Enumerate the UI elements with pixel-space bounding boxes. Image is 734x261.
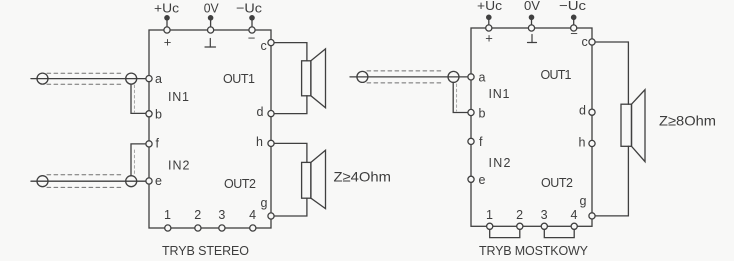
pin e (left): [146, 178, 152, 184]
svg-text:b: b: [155, 108, 162, 122]
svg-text:h: h: [256, 135, 263, 149]
svg-text:IN2: IN2: [168, 159, 190, 173]
wire IN1 shield to pin b (left): [131, 84, 146, 113]
svg-text:4: 4: [249, 208, 256, 222]
connector socket J2 (left IN2): [126, 176, 137, 187]
pin a (right): [468, 74, 474, 80]
pin b (right): [468, 109, 474, 115]
svg-text:3: 3: [541, 208, 548, 222]
wire IN2 shield to pin f (left): [131, 144, 146, 176]
svg-text:OUT2: OUT2: [224, 177, 256, 191]
svg-text:+: +: [164, 35, 172, 50]
pin f (left): [146, 141, 152, 147]
pin g (right): [589, 213, 595, 219]
svg-text:TRYB MOSTKOWY: TRYB MOSTKOWY: [479, 244, 589, 258]
svg-text:h: h: [579, 136, 586, 150]
pin c (left): [268, 40, 274, 46]
cable IN2 screen dashed outline (left): [47, 175, 121, 188]
svg-text:IN2: IN2: [489, 156, 511, 170]
connector socket J3 (right IN): [448, 71, 459, 82]
svg-text:d: d: [579, 104, 586, 118]
wire pin d to speaker LS1 (left): [274, 96, 307, 114]
pin d (right): [589, 109, 595, 115]
supply terminal +Uc (left): [164, 15, 170, 33]
svg-text:3: 3: [218, 208, 225, 222]
pin h (right): [589, 140, 595, 146]
svg-text:+: +: [485, 31, 493, 46]
svg-text:g: g: [261, 196, 268, 210]
pin 4 (right): [571, 223, 577, 229]
svg-text:IN1: IN1: [489, 87, 510, 101]
svg-text:OUT1: OUT1: [541, 68, 572, 82]
cable IN1 screen dashed outline (left): [47, 73, 121, 84]
connector plug P2 (left IN2): [37, 176, 48, 187]
svg-text:d: d: [257, 105, 264, 119]
svg-text:Z≥8Ohm: Z≥8Ohm: [659, 113, 716, 129]
amplifier box U2: [471, 28, 592, 226]
supply terminal -Uc (right): [571, 14, 577, 31]
svg-text:g: g: [580, 194, 587, 208]
supply terminal +Uc (right): [486, 14, 492, 31]
svg-text:2: 2: [516, 208, 523, 222]
svg-text:f: f: [479, 135, 483, 149]
svg-text:1: 1: [164, 208, 171, 222]
supply terminal 0V (left): [208, 15, 214, 33]
pin marking ⊥ (right): [528, 35, 537, 43]
svg-text:c: c: [261, 39, 267, 53]
pin 2 (right): [517, 223, 523, 229]
pin 2 (left): [195, 225, 201, 231]
wire IN centre conductor to pin a (right): [350, 76, 468, 78]
pin g (left): [268, 213, 274, 219]
jumper wire pins 3-4 (right): [544, 229, 574, 237]
svg-text:e: e: [479, 173, 486, 187]
pin e (right): [468, 176, 474, 182]
svg-text:1: 1: [486, 208, 493, 222]
pin h (left): [268, 140, 274, 146]
svg-text:OUT2: OUT2: [541, 176, 573, 190]
svg-text:−Uc: −Uc: [236, 1, 263, 16]
svg-text:+Uc: +Uc: [154, 1, 180, 16]
speaker LS2 (left): [302, 150, 326, 208]
pin d (left): [268, 111, 274, 117]
wire pin g to speaker LS3 (right): [595, 146, 628, 216]
cable IN screen dashed outline (right): [367, 71, 443, 83]
amplifier box U1: [149, 30, 271, 228]
wire IN1 centre conductor to pin a (left): [31, 78, 146, 80]
svg-text:Z≥4Ohm: Z≥4Ohm: [334, 169, 392, 185]
svg-text:−: −: [248, 31, 256, 46]
svg-text:−: −: [570, 26, 578, 41]
pin 3 (left): [219, 225, 225, 231]
wire pin h to speaker LS2 (left): [274, 143, 307, 162]
pin a (left): [146, 76, 152, 82]
pin b (left): [146, 111, 152, 117]
svg-text:TRYB STEREO: TRYB STEREO: [162, 244, 249, 258]
wire pin c to speaker LS1 (left): [274, 43, 307, 61]
supply terminal 0V (right): [528, 14, 534, 31]
svg-text:0V: 0V: [204, 1, 219, 16]
wire IN shield to pin b (right): [453, 82, 468, 112]
speaker LS3 (right): [621, 90, 645, 162]
speaker LS1 (left): [302, 49, 326, 108]
svg-text:b: b: [479, 107, 486, 121]
connector plug P1 (left IN1): [37, 73, 48, 84]
connector socket J1 (left IN1): [126, 73, 137, 84]
svg-text:−Uc: −Uc: [559, 0, 587, 13]
svg-text:a: a: [479, 71, 486, 85]
svg-text:IN1: IN1: [168, 90, 189, 104]
pin c (right): [589, 39, 595, 45]
pin 1 (right): [487, 223, 493, 229]
svg-text:c: c: [582, 35, 588, 49]
svg-text:e: e: [155, 174, 162, 188]
svg-text:4: 4: [571, 208, 578, 222]
pin 3 (right): [541, 223, 547, 229]
wire pin g to speaker LS2 (left): [274, 198, 307, 216]
svg-text:a: a: [155, 72, 162, 86]
wire pin c to speaker LS3 (right): [595, 42, 628, 104]
svg-text:0V: 0V: [524, 0, 540, 13]
pin f (right): [468, 138, 474, 144]
svg-text:+Uc: +Uc: [477, 0, 503, 13]
supply terminal -Uc (left): [249, 15, 255, 33]
pin marking ⊥ (left): [205, 39, 216, 48]
pin 1 (left): [165, 225, 171, 231]
jumper wire pins 1-2 (right): [490, 229, 520, 237]
svg-text:2: 2: [194, 208, 201, 222]
wire IN2 centre conductor to pin e (left): [31, 180, 146, 182]
pin 4 (left): [250, 225, 256, 231]
svg-text:f: f: [156, 137, 160, 151]
connector plug P3 (right IN): [357, 71, 368, 82]
svg-text:OUT1: OUT1: [223, 72, 255, 86]
